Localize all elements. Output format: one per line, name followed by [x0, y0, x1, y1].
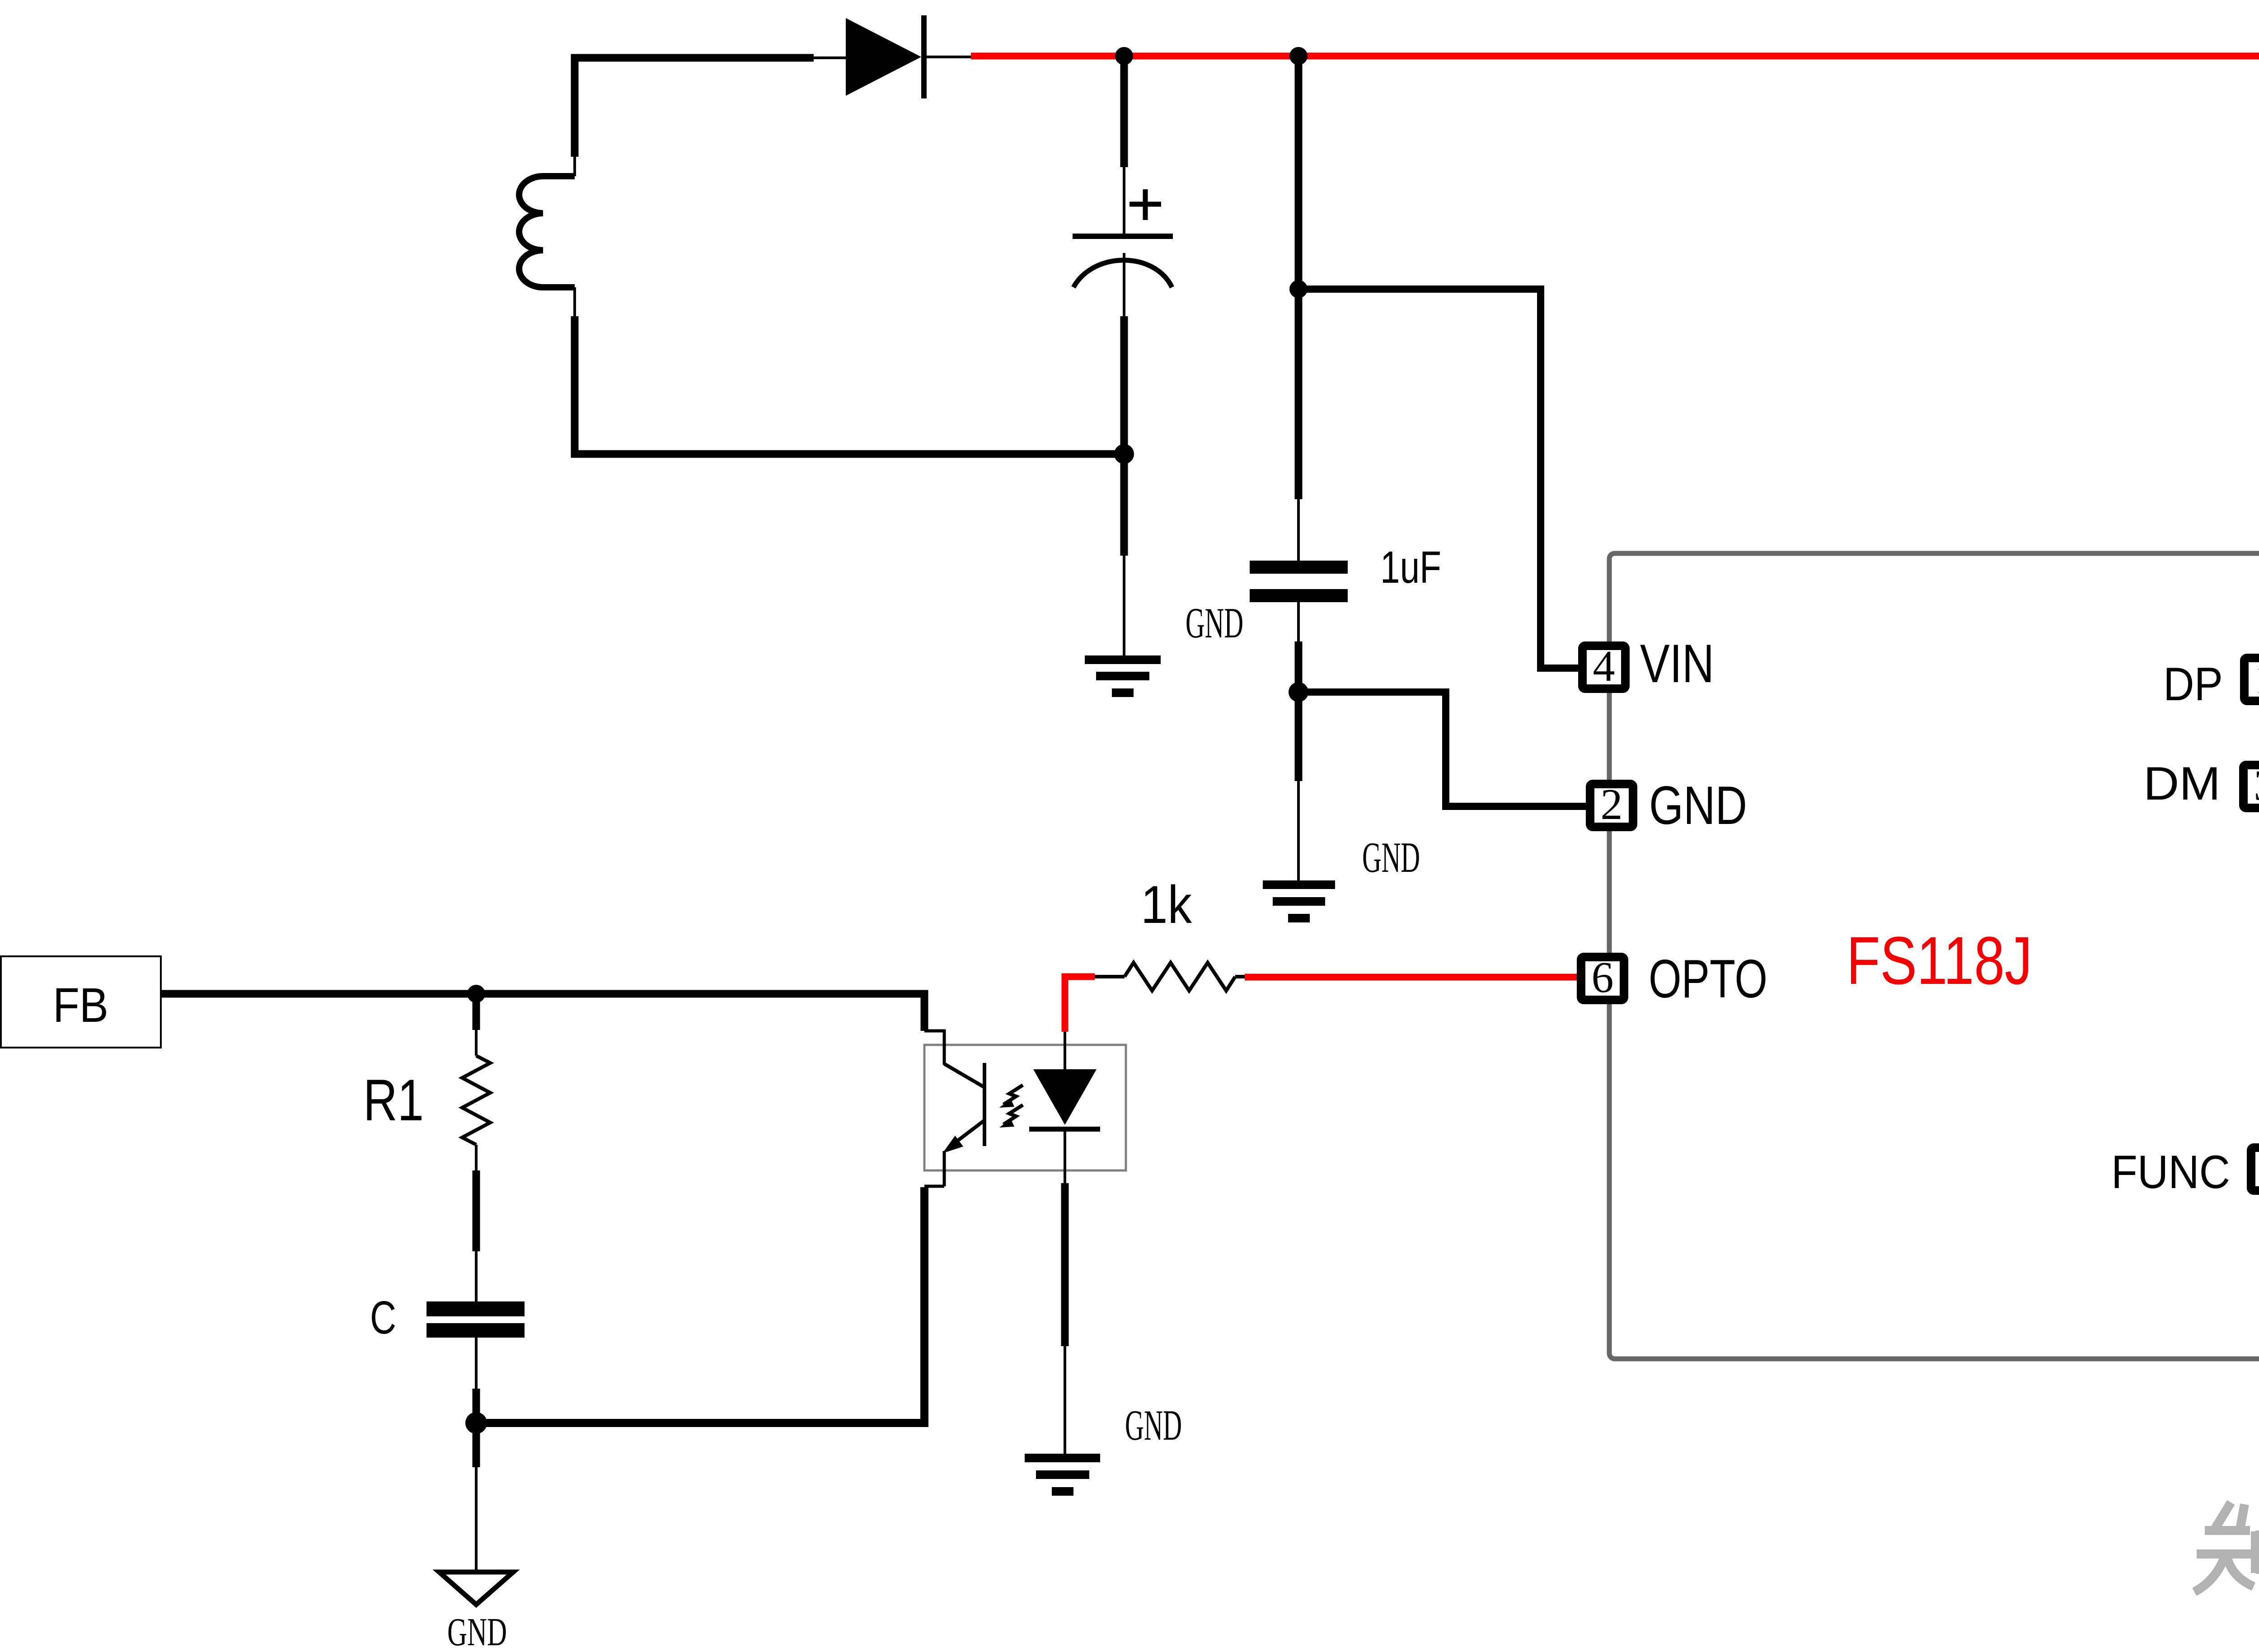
IC U1 FS118J body: [1609, 553, 2259, 1359]
junction: VBUS / VIN branch: [1289, 47, 1308, 65]
capacitor C: [426, 1301, 525, 1338]
diode D1: [846, 15, 971, 98]
wire: OPTO net red corner at LED anode: [1065, 977, 1095, 1032]
svg-text:GND: GND: [1125, 1401, 1182, 1449]
svg-text:1: 1: [2255, 654, 2259, 703]
svg-text:DM: DM: [2143, 758, 2221, 810]
pin 6 box: [1581, 953, 1624, 1002]
capacitor C1 electrolytic: [1073, 56, 1173, 655]
opto light arrows: [1003, 1085, 1023, 1124]
resistor 1k: [1095, 963, 1245, 991]
ground: opto LED: [1025, 1454, 1100, 1496]
junction: VIN branch: [1289, 280, 1308, 298]
svg-text:VIN: VIN: [1640, 633, 1714, 694]
svg-text:FB: FB: [53, 978, 108, 1032]
svg-text:DP: DP: [2163, 658, 2223, 711]
opto phototransistor: [924, 1031, 984, 1186]
svg-text:GND: GND: [447, 1610, 507, 1652]
wire: FB net: [161, 994, 924, 1031]
svg-text:4: 4: [1593, 642, 1615, 691]
svg-text:FUNC: FUNC: [2111, 1146, 2230, 1198]
wire: C2 bottom to GND pin 2: [1298, 602, 1586, 880]
pin 4 box: [1583, 642, 1626, 691]
svg-text:GND: GND: [1186, 599, 1243, 647]
svg-text:GND: GND: [1649, 775, 1747, 836]
watermark 知乎 @速芯微: [2194, 1502, 2259, 1592]
svg-text:3: 3: [2254, 761, 2259, 810]
pin 1 box: [2245, 654, 2259, 703]
wire: VBUS net (red): [971, 55, 2259, 56]
pin 3 box: [2244, 761, 2259, 810]
pin 5 box: [2251, 1144, 2259, 1193]
junction: C bottom / opto emitter: [465, 1412, 487, 1434]
ground: C2: [1263, 880, 1335, 922]
wire: C bottom: [475, 1338, 478, 1570]
svg-text:2: 2: [1601, 780, 1623, 829]
wire: OPTO net (red) to pin 6: [1245, 974, 1577, 981]
junction: FB / R1: [467, 985, 485, 1003]
junction: C2 bottom: [1289, 682, 1308, 702]
wire: bottom node to opto emitter: [476, 1187, 924, 1423]
FB port box: [1, 956, 161, 1048]
svg-text:GND: GND: [1362, 833, 1420, 881]
svg-text:6: 6: [1592, 953, 1614, 1002]
inductor L1: [519, 157, 575, 316]
svg-text:C: C: [370, 1292, 396, 1343]
junction: VBUS / C1: [1115, 47, 1133, 65]
wire: LED cathode to ground: [1064, 1132, 1066, 1454]
pin 2 box: [1590, 780, 1633, 829]
svg-text:FS118J: FS118J: [1847, 922, 2032, 998]
wire: inductor top to diode anode: [575, 58, 846, 157]
svg-text:OPTO: OPTO: [1649, 949, 1767, 1009]
opto LED diode: [1029, 1032, 1100, 1132]
svg-text:1uF: 1uF: [1380, 542, 1441, 593]
capacitor C2 1uF: [1250, 561, 1348, 602]
resistor R1: [462, 994, 490, 1301]
wire: VBUS to 1uF and VIN: [1298, 56, 1578, 668]
svg-text:R1: R1: [363, 1067, 424, 1133]
wire: inductor bottom to C1 bottom node: [575, 316, 1124, 454]
optocoupler U2 body: [924, 1045, 1126, 1170]
opto emitter arrowhead: [942, 1136, 963, 1153]
junction: C1 bottom: [1114, 444, 1134, 464]
ground: C1: [1085, 655, 1161, 697]
svg-text:1k: 1k: [1141, 875, 1192, 935]
ground arrow (FB divider): [439, 1572, 513, 1605]
